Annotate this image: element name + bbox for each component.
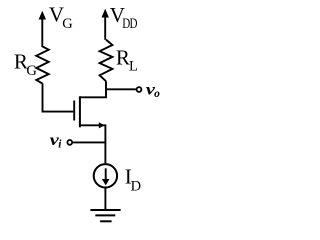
terminal vi [67, 140, 72, 145]
svg-text:L: L [129, 58, 138, 74]
svg-text:D: D [131, 179, 141, 195]
svg-text:R: R [116, 46, 130, 70]
wire: vi to source node [73, 141, 105, 143]
svg-text:DD: DD [122, 16, 137, 32]
svg-text:G: G [62, 16, 73, 32]
current source ID circle [94, 164, 117, 187]
svg-text:o: o [154, 88, 160, 100]
source arrow head [99, 122, 105, 128]
transistor Q1 channel bar [79, 96, 81, 127]
wire: RG bottom lead to gate [43, 83, 74, 111]
wire: VDD arrow shaft [104, 13, 106, 40]
wire: drain lead [80, 81, 106, 97]
resistor RG [36, 47, 48, 84]
VDD arrow head [102, 9, 109, 18]
svg-text:G: G [26, 63, 37, 79]
wire: current source to ground [104, 188, 106, 210]
ground [90, 209, 120, 211]
current source arrow shaft [105, 168, 107, 180]
VG arrow head [39, 11, 46, 20]
terminal vo [137, 87, 142, 92]
wire: VG arrow shaft [41, 15, 43, 47]
transistor Q1 gate bar [73, 101, 75, 121]
current source arrow head [102, 179, 110, 185]
wire: source lead with corner down to current source [80, 125, 106, 164]
resistor RL [100, 40, 113, 82]
wire: vo branch [106, 88, 136, 90]
